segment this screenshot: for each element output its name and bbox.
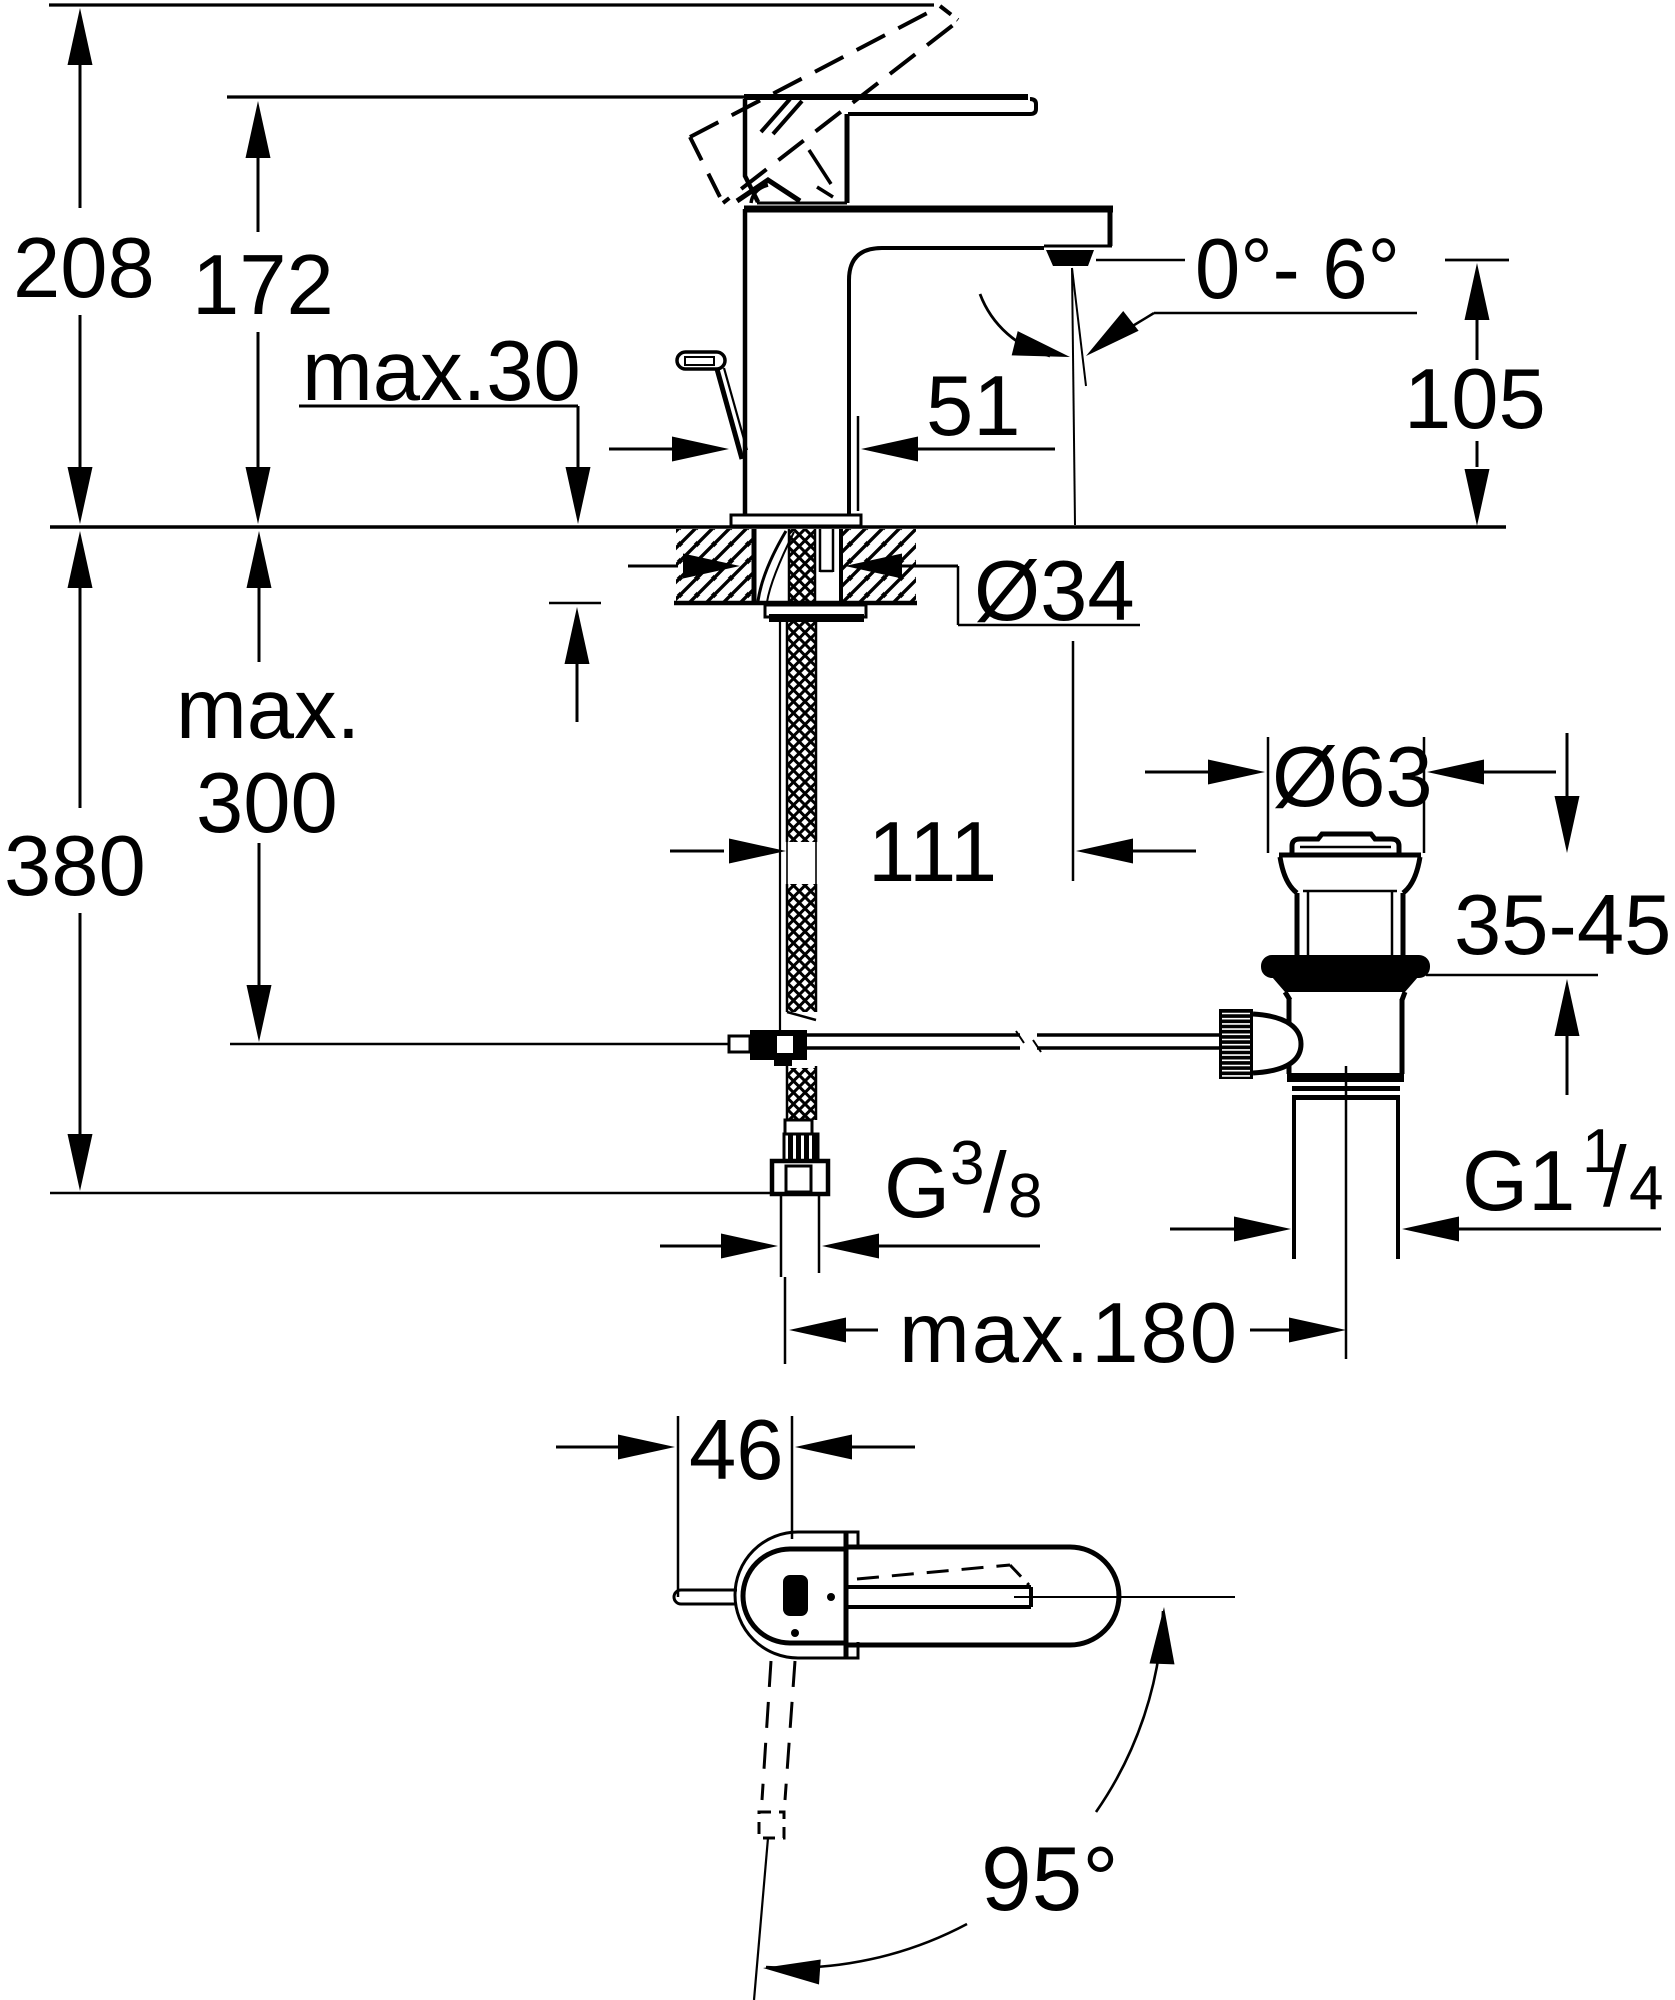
handle pivot V (737, 180, 800, 201)
95deg zero reference line (1014, 1596, 1235, 1598)
dim 105 arrow up (1465, 263, 1490, 320)
lever front face dash 2 (817, 187, 833, 197)
G3/8 nut (772, 1161, 828, 1194)
svg-text:/: / (1603, 1130, 1627, 1225)
drain center line (1345, 1066, 1348, 1359)
dim 35-45 arrow up (1555, 979, 1580, 1036)
ref line top of closed handle (172) (227, 95, 744, 98)
drain knurled knob (1219, 1009, 1253, 1079)
braided hose segment 3 (787, 1068, 816, 1120)
cartridge left edge (745, 99, 758, 202)
dim O34 left arrow shaft (628, 565, 678, 568)
svg-text:51: 51 (926, 359, 1021, 454)
max.30 arrow up to counter bottom (565, 607, 590, 664)
handle lever bottom and right cap (848, 99, 1036, 114)
top view lever slot top (848, 1585, 1031, 1589)
mounting nut (769, 614, 864, 622)
supply pipe right wall (818, 1194, 821, 1273)
dim max180 right arrow (1289, 1318, 1346, 1343)
top view spout capsule (846, 1547, 1119, 1645)
counter hatch left (676, 529, 752, 601)
95deg arc upper (1096, 1611, 1163, 1812)
drain flange left curve (1280, 857, 1297, 893)
dim 51 right arrow (861, 437, 918, 462)
drain knob bell housing (1253, 1014, 1301, 1073)
svg-text:Ø34: Ø34 (974, 544, 1135, 639)
svg-text:46: 46 (689, 1403, 784, 1498)
dim 111 right arrow (1076, 839, 1133, 864)
rod clamp block (750, 1030, 807, 1060)
braided hose segment 1 (787, 622, 816, 842)
svg-text:380: 380 (4, 819, 146, 914)
O63 extension left (1267, 737, 1270, 853)
angle arc arrowhead (1012, 331, 1073, 369)
dashed handle open position (690, 8, 937, 137)
flange underside line (1303, 890, 1397, 893)
spout axis extension below counter (1072, 641, 1075, 881)
top view dashed lever (857, 1565, 1010, 1579)
underline leader 0-6 (1154, 312, 1417, 315)
rod break ticks (1016, 1031, 1024, 1043)
svg-text:Ø63: Ø63 (1272, 730, 1433, 825)
pop-up rod tube in shank (819, 529, 822, 572)
hose ribbed connector (784, 1134, 818, 1161)
hose tip slant (787, 1012, 816, 1020)
svg-text:35-45: 35-45 (1454, 878, 1671, 973)
faucet body left edge (743, 209, 748, 516)
dim G1-1/4 left arrow shaft (1170, 1228, 1234, 1231)
svg-text:300: 300 (196, 756, 338, 851)
drain flange top (1279, 853, 1421, 858)
hose ferrule (785, 1120, 812, 1134)
dim 35-45 arrow down (1555, 796, 1580, 853)
dim 111 left arrow shaft (670, 850, 724, 853)
drain O-ring seal (1261, 955, 1430, 978)
dim G3/8 left arrow shaft (660, 1245, 722, 1248)
svg-text:0°- 6°: 0°- 6° (1195, 222, 1400, 317)
cap inner line (1300, 846, 1391, 849)
faucet spout top edge (744, 206, 1113, 213)
svg-text:111: 111 (868, 805, 997, 900)
dim max300 arrow down (247, 985, 272, 1042)
pivot fillet arc (751, 185, 768, 203)
svg-text:3: 3 (950, 1129, 984, 1198)
drain flange right curve (1403, 857, 1420, 893)
dimension 172 arrow down (246, 467, 271, 524)
top view cartridge hole (783, 1575, 808, 1616)
top view base escutcheon outline (735, 1532, 858, 1658)
counter bottom line (674, 601, 917, 606)
svg-text:8: 8 (1008, 1162, 1042, 1231)
svg-text:max.: max. (176, 662, 360, 757)
water stream tilted 6 deg (1072, 268, 1086, 386)
drain body wall left upper (1295, 893, 1300, 957)
clamp ball joint (754, 1035, 773, 1054)
handle end solid diagonal 1 (761, 99, 790, 132)
supply pipe left wall (780, 1194, 783, 1277)
faucet base plate (731, 515, 861, 526)
dim 51 left arrow shaft (609, 448, 673, 451)
dim O63 left arrow shaft (1145, 771, 1209, 774)
mounting washer (765, 605, 866, 617)
counter hatch right (843, 529, 916, 601)
drain tailpipe right wall (1396, 1100, 1400, 1259)
drain neck inner wall left (1307, 891, 1310, 955)
dim O34 right arrow (845, 554, 902, 579)
drain body wall right lower (1400, 999, 1405, 1074)
lever front face dash 1 (809, 150, 831, 184)
drain body wall right upper (1401, 893, 1406, 957)
dim max180 left arrow (789, 1318, 846, 1343)
svg-text:172: 172 (192, 238, 334, 333)
35-45 ref line at seal (1426, 974, 1598, 977)
braided hose through counter (789, 529, 815, 605)
drain body wall left lower (1287, 999, 1292, 1074)
leader to 0-6 label (1096, 259, 1185, 262)
95deg arc bottom arrowhead (762, 1956, 821, 1985)
O34 leader vertical (957, 566, 960, 625)
O63 extension right (1423, 737, 1426, 853)
dim 46 extension left (677, 1416, 680, 1597)
hose curve in shank (758, 531, 786, 601)
max.30 arrow down to counter top (566, 467, 591, 524)
dimension 172 arrow up (246, 101, 271, 158)
handle lever top edge (744, 94, 1028, 100)
svg-text:105: 105 (1404, 352, 1546, 447)
top view lever slot bottom (848, 1605, 1031, 1609)
pop-up rod knob cap (677, 352, 725, 369)
leader arrow to stream (1078, 311, 1138, 366)
drain tailpipe left wall (1292, 1100, 1296, 1259)
dim 46 extension right (791, 1416, 794, 1539)
top view handle cap circle (743, 1549, 846, 1643)
dim max300 arrow up (247, 531, 272, 588)
O34 leader underline (958, 624, 1140, 627)
faucet spout bottom edge (1044, 245, 1112, 248)
angle arc 0-6 (980, 294, 1050, 356)
dim 105 top tick (1445, 259, 1509, 262)
dim O63 right arrow (1427, 760, 1484, 785)
handle end solid diagonal 2 (773, 101, 802, 134)
svg-text:/: / (983, 1136, 1007, 1231)
drain collar rings (1287, 1073, 1404, 1082)
faucet body inner profile (849, 248, 1044, 516)
max.30 tick at counter bottom (549, 602, 601, 605)
dim 105 arrow down (1465, 469, 1490, 526)
drain neck inner wall right (1391, 891, 1394, 955)
cartridge bottom edge (757, 202, 847, 205)
dim 380 arrow up (68, 531, 93, 588)
max.30 leader drop (577, 406, 580, 467)
cartridge right edge (845, 114, 850, 203)
pop-up rod vertical (779, 622, 781, 1030)
top view body junction line (844, 1532, 849, 1658)
horizontal rod left (230, 1043, 729, 1045)
pop-up rod lever (717, 369, 742, 459)
ref line top of open handle (208) (49, 3, 934, 6)
svg-text:max.180: max.180 (899, 1286, 1239, 1381)
dim 380 arrow down (68, 1134, 93, 1191)
shank left wall (752, 529, 757, 602)
95deg arc lower (766, 1924, 967, 1968)
svg-text:208: 208 (13, 221, 155, 316)
max180 extension line (784, 1277, 787, 1364)
dim 46 left arrow shaft (556, 1446, 619, 1449)
braided hose segment 2 (787, 884, 816, 1012)
horizontal rod to drain top edge (807, 1033, 1020, 1037)
lever axis line (754, 1838, 768, 2000)
dim 51 extension line (857, 416, 860, 511)
max.30 leader underline (299, 405, 578, 408)
dashed handle swung 95deg (762, 1661, 771, 1800)
top view pop-up pin (674, 1590, 737, 1604)
svg-text:4: 4 (1629, 1154, 1663, 1223)
dimension 208 arrow down (68, 467, 93, 524)
dim 46 right arrow (795, 1435, 852, 1460)
ref line hose end (380 bottom) (50, 1192, 771, 1195)
drain push cap (1292, 834, 1399, 855)
dim G1-1/4 right arrow (1402, 1217, 1459, 1242)
water stream vertical line (1072, 268, 1075, 525)
dimension 208 arrow up (68, 8, 93, 65)
hole right wall (839, 529, 843, 602)
svg-text:95°: 95° (981, 1829, 1119, 1930)
svg-text:G: G (884, 1141, 950, 1236)
counter top line (50, 525, 1506, 528)
faucet spout right edge (1108, 206, 1113, 246)
aerator outlet (1046, 250, 1094, 266)
svg-text:G1: G1 (1462, 1134, 1575, 1229)
dim 35-45 upper shaft (1566, 733, 1569, 797)
dim G3/8 right arrow (822, 1234, 879, 1259)
retaining plate below seal (1272, 977, 1418, 992)
95deg arc top arrowhead (1150, 1607, 1177, 1665)
horizontal rod right part (1037, 1033, 1219, 1037)
hose break gap (786, 842, 788, 884)
